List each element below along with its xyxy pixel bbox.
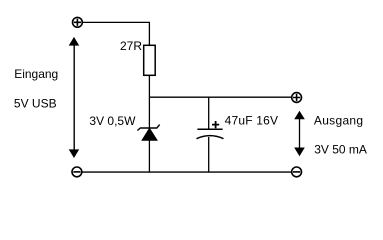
svg-text:Eingang: Eingang xyxy=(14,67,58,81)
zener diode D1 xyxy=(137,125,159,141)
terminal output plus xyxy=(292,93,302,103)
input voltage arrow xyxy=(69,37,80,158)
wire top rail xyxy=(83,22,149,45)
capacitor C1 xyxy=(197,129,224,139)
output voltage arrow xyxy=(294,111,305,157)
svg-text:47uF 16V: 47uF 16V xyxy=(225,114,279,128)
terminal input plus xyxy=(73,17,83,27)
wire middle rail xyxy=(149,96,291,98)
resistor R1 xyxy=(144,45,156,75)
terminal input minus xyxy=(72,167,82,177)
svg-text:3V 50 mA: 3V 50 mA xyxy=(314,143,367,157)
svg-text:27R: 27R xyxy=(120,39,142,53)
svg-text:5V USB: 5V USB xyxy=(14,96,57,110)
wire zener to bottom rail xyxy=(148,140,150,172)
terminal output minus xyxy=(292,167,302,177)
wire bottom rail xyxy=(82,171,291,173)
wire node to zener xyxy=(148,97,150,128)
wire resistor to node xyxy=(148,75,150,97)
capacitor C1 plus mark xyxy=(212,121,219,128)
svg-text:Ausgang: Ausgang xyxy=(314,113,363,127)
wire capacitor to bottom rail xyxy=(208,137,210,172)
svg-text:3V 0,5W: 3V 0,5W xyxy=(89,114,136,128)
wire node to capacitor xyxy=(208,97,210,129)
